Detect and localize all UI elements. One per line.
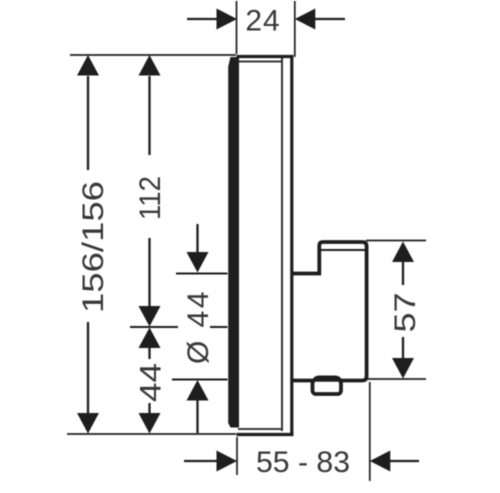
- plate top inner line: [238, 61, 281, 63]
- dim 156/156 line upper: [87, 76, 89, 170]
- plate right inner line: [281, 58, 283, 431]
- dim 156/156 up arrow: [77, 55, 99, 76]
- dim 57 down arrow: [392, 358, 414, 379]
- dim dia44 upper line: [196, 224, 198, 253]
- dim 44 line lower: [148, 403, 150, 413]
- plate bottom edge: [237, 433, 294, 436]
- handle cap line: [321, 249, 366, 251]
- dim 112 down arrow: [139, 306, 161, 327]
- dim 112 up arrow: [139, 55, 161, 76]
- plate right outer edge: [290, 56, 293, 434]
- dim 112 line lower: [148, 238, 150, 306]
- tick at handle centre: [130, 326, 178, 328]
- dim 44 up arrow: [139, 328, 161, 349]
- dim 57 line lower: [402, 337, 404, 358]
- dim 24 left extension line: [236, 1, 238, 54]
- dim 55-83 right extension line: [369, 382, 371, 481]
- dim 156/156 line lower: [87, 322, 89, 413]
- dim 112 line upper: [148, 76, 150, 155]
- svg-text:44: 44: [135, 363, 168, 402]
- dim 44 down arrow: [139, 413, 161, 434]
- svg-text:55 - 83: 55 - 83: [256, 446, 350, 479]
- dim 57 up arrow: [392, 242, 414, 263]
- dim dia44 up arrow: [187, 380, 209, 401]
- dim 44 line mid: [148, 348, 150, 359]
- svg-text:57: 57: [389, 293, 422, 333]
- handle button: [313, 380, 342, 394]
- plate front face bar: [228, 57, 239, 428]
- dim 55-83 left arrow: [184, 460, 217, 462]
- svg-text:112: 112: [134, 176, 167, 220]
- dim 156/156 bottom extension line: [67, 433, 236, 435]
- dim dia44 lower line: [196, 400, 198, 433]
- dim dia44 top tick: [176, 273, 228, 275]
- handle body outline: [292, 242, 367, 381]
- dim 156/156 top extension line: [70, 54, 236, 56]
- dim dia44 down arrow: [187, 252, 209, 273]
- dim 24 left arrow: [187, 18, 218, 20]
- dim 57 line upper: [402, 262, 404, 285]
- handle button bump: [312, 376, 344, 383]
- dim 57 bottom extension line: [368, 378, 426, 380]
- svg-text:24: 24: [245, 5, 280, 38]
- dim 57 top extension line: [366, 240, 426, 242]
- dim 24 right extension line: [294, 1, 296, 57]
- dim 55-83 right arrow: [390, 460, 419, 462]
- plate top edge: [237, 55, 294, 58]
- dim 24 right arrow: [314, 18, 345, 20]
- dim 55-83 left extension line: [236, 437, 238, 475]
- plate bottom inner line: [238, 428, 281, 430]
- dim dia44 bottom tick: [172, 379, 228, 381]
- dim 156/156 down arrow: [77, 413, 99, 434]
- svg-text:Ø 44: Ø 44: [182, 289, 215, 364]
- svg-text:156/156: 156/156: [77, 181, 110, 313]
